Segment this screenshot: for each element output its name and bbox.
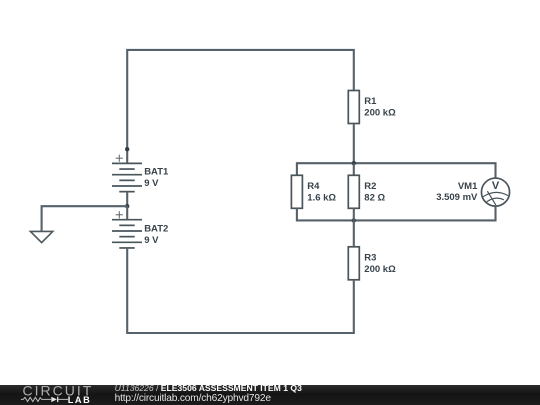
BAT1 + polarity mark: [116, 155, 123, 162]
svg-text:R2: R2: [364, 181, 376, 192]
wire: R2 bottom to node B: [353, 208, 355, 220]
wire: mid node to BAT2 + terminal: [126, 206, 128, 220]
node A: junction R1/R2 top rail: [352, 161, 356, 165]
voltmeter VM1: [481, 178, 509, 206]
svg-text:V: V: [492, 180, 500, 192]
wire: middle bottom rail (R4 bottom stub to voltmeter bottom stub): [297, 206, 496, 220]
wire: mid node to ground symbol: [42, 206, 128, 231]
svg-text:82 Ω: 82 Ω: [364, 192, 385, 203]
wire: node A to R2 top: [353, 163, 355, 175]
node B: junction R2/R3 bottom rail: [352, 218, 356, 222]
battery BAT1: [112, 163, 142, 191]
svg-text:R3: R3: [364, 253, 376, 264]
resistor R3: [348, 247, 359, 280]
wire: middle top rail (R4 top stub to voltmeter top stub): [297, 163, 496, 178]
svg-text:R1: R1: [364, 96, 377, 107]
svg-text:LAB: LAB: [68, 395, 92, 405]
battery BAT2: [112, 220, 142, 248]
node: junction BAT1/BAT2/ground: [125, 204, 129, 208]
svg-text:VM1: VM1: [458, 181, 478, 192]
wire: R1 bottom to node A: [353, 124, 355, 164]
footer bar: [0, 385, 540, 405]
BAT2 + polarity mark: [116, 211, 123, 218]
resistor R4: [291, 175, 302, 208]
wire: node B to R3 top: [353, 220, 355, 246]
svg-text:R4: R4: [307, 181, 320, 192]
svg-text:U1136226 / ELE3506 ASSESSMENT: U1136226 / ELE3506 ASSESSMENT ITEM 1 Q3: [115, 383, 302, 393]
node: dot on BAT1 + terminal wire: [125, 147, 129, 151]
ground: [30, 231, 52, 242]
CircuitLab logo: diode: [51, 397, 68, 402]
CircuitLab logo: resistor zigzag: [21, 397, 51, 401]
svg-text:BAT1: BAT1: [144, 167, 169, 178]
svg-text:200 kΩ: 200 kΩ: [364, 264, 396, 275]
svg-text:1.6 kΩ: 1.6 kΩ: [307, 192, 336, 203]
resistor R1: [348, 91, 359, 124]
svg-text:3.509 mV: 3.509 mV: [436, 192, 478, 203]
svg-text:9 V: 9 V: [144, 178, 159, 189]
svg-text:9 V: 9 V: [144, 235, 159, 246]
wire: BAT1 + terminal up, across top rail, down to R1 top: [127, 50, 354, 163]
svg-text:BAT2: BAT2: [144, 224, 168, 235]
wire: R3 bottom, across bottom rail, up to BAT2 - terminal: [127, 248, 354, 333]
wire: BAT1 - terminal to mid node: [126, 192, 128, 207]
resistor R2: [348, 175, 359, 208]
svg-text:http://circuitlab.com/ch62yphv: http://circuitlab.com/ch62yphvd792e: [115, 393, 272, 404]
svg-text:200 kΩ: 200 kΩ: [364, 108, 396, 119]
